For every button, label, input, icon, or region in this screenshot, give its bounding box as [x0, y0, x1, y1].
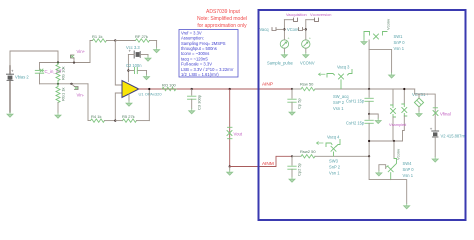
ground at op-amp [126, 101, 132, 106]
svg-text:V2 415.887m: V2 415.887m [441, 134, 466, 139]
node CsH1 on AINP rail [368, 88, 370, 90]
ground below Sample_pulse [281, 53, 287, 58]
svg-text:Sample_pulse: Sample_pulse [267, 61, 294, 66]
svg-text:R1 1k: R1 1k [92, 34, 102, 39]
port Vfinal [433, 108, 451, 117]
resistor RG 10k [56, 63, 66, 84]
svg-text:ADS7039 Input: ADS7039 Input [206, 9, 241, 15]
ground at CsH mid node [375, 118, 381, 123]
resistor RO 100 [162, 83, 177, 91]
node Cp tap [291, 88, 293, 90]
svg-text:CsH1 15p: CsH1 15p [346, 99, 365, 104]
svg-text:Cp 5p: Cp 5p [297, 98, 302, 109]
wire VConv to flag [303, 28, 306, 30]
wire SW4 control drop [393, 141, 395, 158]
node Vout tap [229, 88, 231, 90]
svg-text:+: + [288, 37, 290, 41]
svg-text:C3 300p: C3 300p [197, 94, 202, 110]
node on Vin+ row at RG [57, 61, 59, 63]
resistor R4 1k [91, 114, 116, 122]
switch SWP sample right [402, 89, 407, 141]
port Vout [227, 127, 243, 138]
svg-text:Vconv: Vconv [386, 19, 391, 30]
svg-text:AINM: AINM [262, 161, 274, 166]
voltage source Sample_pulse [260, 20, 294, 66]
svg-text:CsH2 15p: CsH2 15p [346, 121, 365, 126]
node between CsH caps [368, 113, 370, 115]
switch SW1 top [361, 19, 405, 51]
svg-text:Vacq 4: Vacq 4 [327, 135, 340, 140]
voltage source Vcc 3.3 [126, 45, 148, 58]
tag flag Vacq [272, 28, 276, 31]
svg-text:RO 100: RO 100 [162, 83, 177, 88]
ground at C3 [189, 109, 195, 114]
svg-text:Vacquisition: Vacquisition [286, 12, 307, 17]
svg-text:SnP 0: SnP 0 [403, 167, 415, 172]
svg-text:for approximation only: for approximation only [197, 23, 247, 29]
svg-text:Vsn 1: Vsn 1 [329, 171, 340, 176]
ground below VCONV [303, 53, 309, 58]
svg-text:+: + [430, 127, 433, 132]
switch SWP sample left [391, 89, 396, 141]
node comparator row left [368, 140, 370, 142]
wire op-amp output to ADC box (AINP) [140, 88, 143, 90]
resistor R1 1k [90, 34, 115, 42]
svg-text:SnP 2: SnP 2 [333, 100, 345, 105]
wire R5 feedback riser to output node [148, 89, 150, 121]
svg-text:RG1 1k: RG1 1k [61, 87, 66, 101]
capacitor CsH1 15p [346, 89, 373, 114]
svg-text:Vin+: Vin+ [77, 49, 86, 54]
ground at bottom run [404, 204, 410, 209]
resistor Rsw 50 [292, 82, 415, 91]
capacitor CsH2 15p [346, 114, 373, 156]
node output [148, 88, 150, 90]
port Vacquisition [284, 12, 306, 21]
svg-text:RG 10k: RG 10k [61, 66, 66, 80]
wire Vout branch down [229, 89, 231, 167]
svg-text:Cp2 5p: Cp2 5p [297, 162, 302, 176]
svg-text:U1 OPAx320: U1 OPAx320 [139, 92, 163, 97]
svg-text:SW4: SW4 [403, 161, 413, 166]
ground at C2 [144, 75, 150, 80]
wire Vcc to op-amp supply pin [127, 55, 129, 82]
svg-text:Rsw 50: Rsw 50 [300, 82, 314, 87]
node on Vin- row at port [70, 83, 72, 85]
svg-text:1/2_LSB = 1.61(mV): 1/2_LSB = 1.61(mV) [181, 72, 219, 77]
node Vacq tag [283, 28, 285, 30]
wire rail end to VCVS output run [415, 89, 436, 131]
svg-text:+: + [129, 49, 132, 54]
ground below Vbias [7, 112, 13, 117]
svg-text:Vin-: Vin- [77, 93, 85, 98]
wire op-amp non-inverting input down to bottom rail [115, 93, 122, 121]
wire mid node to ground stub [369, 114, 378, 118]
node bottom rail [114, 120, 116, 122]
resistor R5 27k [115, 114, 149, 122]
node C3 tap [191, 88, 193, 90]
tag flag VConv [299, 28, 303, 31]
node on Vin- row at RG [57, 83, 59, 85]
svg-text:SnP 2: SnP 2 [329, 165, 341, 170]
capacitor Cp2 [288, 156, 302, 177]
svg-text:+: + [309, 37, 311, 41]
switch SW_acq on AINP rail [319, 65, 353, 112]
assumptions text box [179, 30, 238, 78]
capacitor C2 100n [126, 63, 147, 75]
dependent source VCVS1 [412, 92, 430, 117]
ground at Cp [289, 110, 295, 115]
node AINM at CsH2 [368, 155, 370, 157]
switch SW4 [376, 159, 414, 180]
svg-text:RF 27k: RF 27k [135, 34, 148, 39]
node sample right on rail [403, 88, 405, 90]
ground at RF end [154, 48, 160, 53]
port Vconversion [306, 12, 332, 21]
node C2 tap [127, 69, 129, 71]
wire Vin+ row [40, 62, 91, 64]
wire top node down to op-amp inverting input [115, 41, 122, 86]
node on Vin+ row at port [73, 61, 75, 63]
voltage source Vbias [7, 66, 30, 112]
voltage source V2 415.887m [430, 127, 466, 157]
ground at SW1 right leg [389, 73, 395, 78]
note text ADS7039 [197, 9, 247, 29]
wire AINM node to bottom ground run [369, 156, 407, 203]
wire Vacq to flag [276, 28, 284, 30]
node VConv tag [305, 28, 307, 30]
port Vin+ [71, 49, 86, 63]
svg-text:+: + [11, 69, 14, 74]
node Cp2 tap [291, 155, 293, 157]
svg-text:AINP: AINP [262, 82, 273, 87]
svg-text:Vsn 1: Vsn 1 [333, 106, 344, 111]
svg-text:Vacq: Vacq [260, 27, 270, 32]
ground at Cp2 [289, 177, 295, 182]
wire comparator row [369, 140, 402, 142]
svg-text:R4 1k: R4 1k [91, 114, 101, 119]
wire op-amp ground pin [128, 94, 130, 101]
bottom rail wire from Vin- row corner [88, 84, 91, 121]
svg-text:Vsampled: Vsampled [389, 122, 406, 127]
voltage source VCONV [287, 20, 315, 66]
svg-text:R5 27k: R5 27k [122, 114, 135, 119]
capacitor C3 [188, 89, 202, 110]
svg-text:Vout: Vout [234, 132, 243, 137]
ground below Vout node [227, 167, 233, 176]
svg-text:Vconversion: Vconversion [310, 12, 331, 17]
node feedback top [114, 39, 116, 41]
svg-text:VCONV: VCONV [300, 61, 315, 66]
svg-text:Vacq 3: Vacq 3 [337, 65, 350, 70]
capacitor Cp [288, 89, 302, 110]
svg-text:Note: Simplified model: Note: Simplified model [197, 16, 247, 22]
wire SW1 to rail and ground [369, 40, 392, 73]
svg-text:Rsw2 50: Rsw2 50 [300, 149, 316, 154]
capacitor C_in_diff [35, 63, 62, 84]
svg-text:Vbias 2: Vbias 2 [15, 75, 29, 80]
wire Vin- row [40, 83, 89, 85]
wire AINM into box [230, 156, 292, 166]
node comparator row SW4 tap [393, 140, 395, 142]
op-amp U1 OPAx320 [122, 81, 162, 98]
node AINM corner [229, 165, 231, 167]
resistor Rsw2 50 [292, 149, 369, 158]
wire RF to ground [156, 41, 158, 48]
svg-text:Vsn 1: Vsn 1 [394, 46, 405, 51]
ADC model boundary box [259, 10, 466, 220]
resistor RG1 1k [56, 84, 66, 113]
svg-text:Vsn 1: Vsn 1 [403, 173, 414, 178]
wire riser input node to top rail [90, 41, 92, 63]
switch SW3 on AINM rail [317, 135, 341, 176]
port Vin- [72, 84, 85, 98]
svg-text:SnP 0: SnP 0 [394, 40, 406, 45]
svg-text:SW1: SW1 [394, 34, 404, 39]
ground below RG1 [55, 113, 61, 118]
wire VCVS top lead [418, 94, 420, 98]
ground at Vcc [145, 56, 151, 61]
resistor RF 27k [115, 34, 156, 42]
ground at V2 [432, 157, 438, 162]
wire Vbias top loop to input node [10, 51, 58, 66]
svg-text:Vfinal: Vfinal [440, 112, 451, 117]
svg-text:SW3: SW3 [329, 159, 339, 164]
